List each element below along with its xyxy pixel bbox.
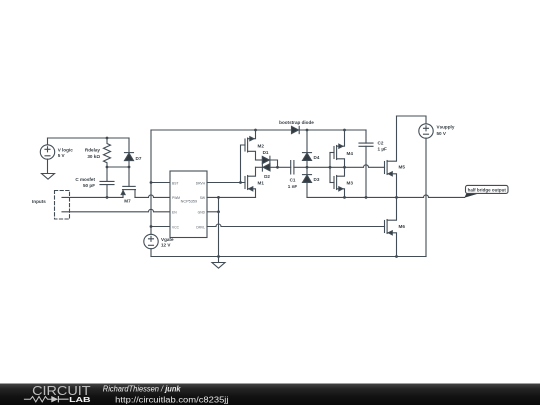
wire input 2 to EN pin (hop over vertical) [62, 209, 170, 212]
junction [276, 166, 279, 169]
transistor M3 [330, 167, 353, 197]
svg-text:1 nF: 1 nF [288, 184, 298, 189]
svg-text:D3: D3 [314, 177, 320, 182]
wire V logic top rail [48, 137, 130, 139]
svg-text:Inputs: Inputs [32, 199, 46, 204]
svg-text:50 V: 50 V [437, 131, 447, 136]
svg-text:D1: D1 [263, 150, 269, 155]
svg-text:V logic: V logic [58, 148, 74, 153]
svg-text:PWM: PWM [172, 196, 180, 200]
diode D4 [303, 130, 320, 167]
junction [150, 181, 153, 184]
wire M2 drain to D1 [256, 159, 263, 161]
svg-text:C2: C2 [378, 140, 384, 145]
voltage source V logic [40, 138, 73, 174]
wire ground rail [151, 256, 426, 258]
wire D1/D2 node to C1 [278, 166, 291, 168]
wire input 1 to M7 source [62, 196, 123, 198]
transistor M7 [121, 186, 135, 203]
junction [343, 166, 346, 169]
svg-text:M4: M4 [347, 151, 354, 156]
wire C1 to gate node line [294, 166, 330, 168]
svg-text:5 V: 5 V [58, 153, 66, 158]
svg-text:M3: M3 [347, 181, 354, 186]
wire M1 drain to D2 [256, 166, 263, 168]
svg-text:NCP5359: NCP5359 [181, 200, 197, 204]
junction [239, 181, 242, 184]
junction [254, 129, 257, 132]
wire GND pin to ground drop [207, 211, 219, 213]
junction [150, 225, 153, 228]
wire gate link M4-M3 [329, 153, 331, 183]
wire node down to C mosfet [106, 167, 108, 181]
svg-text:LAB: LAB [69, 395, 91, 404]
transistor M1 [245, 167, 264, 197]
transistor M5 [385, 116, 406, 197]
wire Rdelay bottom to D7 [107, 166, 129, 168]
voltage source Vsupply [419, 124, 455, 138]
svg-text:half bridge output: half bridge output [468, 187, 507, 192]
junction [329, 166, 332, 169]
transistor M6 [385, 197, 406, 256]
svg-text:EN: EN [172, 211, 177, 215]
svg-text:GND: GND [198, 211, 206, 215]
transistor M4 [330, 130, 353, 167]
svg-text:D2: D2 [264, 174, 270, 179]
capacitor C1 [288, 161, 298, 190]
junction [306, 166, 309, 169]
transistor M2 [245, 130, 264, 160]
wire SW rail [207, 196, 465, 198]
junction [343, 196, 346, 199]
svg-text:http://circuitlab.com/c8235jj: http://circuitlab.com/c8235jj [115, 395, 228, 405]
wire Vsupply top rail [397, 116, 427, 124]
junction [106, 137, 109, 140]
footer logo resistor squiggle [24, 397, 53, 402]
junction [217, 255, 220, 258]
junction [395, 255, 398, 258]
svg-text:30 kΩ: 30 kΩ [87, 154, 100, 159]
wire DRVL to M6 gate (hop) [207, 224, 385, 227]
svg-text:SW: SW [200, 196, 206, 200]
junction [128, 166, 131, 169]
junction [106, 196, 109, 199]
ground [42, 174, 55, 180]
svg-text:VCC: VCC [172, 225, 180, 229]
wire Vgate vertical riser [150, 130, 152, 234]
junction [395, 196, 398, 199]
wire node line to drains (hop over C2 wire) [330, 165, 385, 167]
svg-text:BST: BST [172, 181, 178, 185]
wire riser to BST pin [151, 182, 170, 184]
svg-text:DRVL: DRVL [196, 225, 205, 229]
diode D1 [262, 150, 277, 167]
wire bootstrap top rail [151, 129, 366, 131]
footer bar [0, 384, 540, 405]
voltage source Vgate [144, 234, 174, 248]
svg-text:Rdelay: Rdelay [85, 148, 101, 153]
capacitor C mosfet [75, 177, 114, 197]
diode bootstrap diode [279, 120, 314, 134]
svg-text:D4: D4 [314, 155, 320, 160]
wire Vsupply to ground rail [425, 138, 427, 256]
diode D7 [125, 138, 142, 167]
svg-text:DRVH: DRVH [196, 181, 206, 185]
junction [217, 210, 220, 213]
op-amp U1 NCP5359 gate driver IC [170, 171, 207, 238]
svg-text:M7: M7 [124, 198, 131, 203]
svg-text:M6: M6 [399, 224, 406, 229]
footer logo diode [51, 396, 58, 402]
junction [365, 196, 368, 199]
svg-text:RichardThiessen / junk: RichardThiessen / junk [103, 384, 181, 393]
wire ground drop vertical [218, 197, 220, 262]
capacitor C2 [359, 130, 387, 197]
node half bridge output flag [464, 185, 508, 197]
diode D2 [262, 164, 277, 179]
wire D7 anode to M7 gate [128, 167, 130, 186]
junction [306, 129, 309, 132]
svg-text:C1: C1 [290, 178, 296, 183]
wire riser to VCC pin [151, 226, 170, 228]
ground [212, 263, 225, 269]
svg-text:M2: M2 [258, 143, 265, 148]
wire SW hop over Vsupply wire [424, 195, 429, 198]
junction [343, 129, 346, 132]
input connector box Inputs [32, 191, 70, 220]
svg-text:Vsupply: Vsupply [437, 125, 455, 130]
wire M7 drain to PWM pin (hop over vertical) [135, 195, 170, 198]
svg-text:D7: D7 [136, 156, 142, 161]
svg-text:50 pF: 50 pF [83, 183, 95, 188]
svg-text:M1: M1 [258, 180, 265, 185]
svg-text:bootstrap diode: bootstrap diode [279, 120, 314, 125]
resistor Rdelay [85, 138, 111, 167]
junction [106, 166, 109, 169]
svg-text:M5: M5 [399, 165, 406, 170]
svg-text:C mosfet: C mosfet [75, 177, 95, 182]
diode D3 [303, 167, 320, 197]
wire Vgate to ground rail [150, 249, 152, 257]
wire DRVH to M1/M2 gates [207, 182, 245, 184]
svg-text:12 V: 12 V [161, 243, 171, 248]
svg-text:1 µF: 1 µF [378, 147, 387, 152]
junction [217, 196, 220, 199]
wire gate link M2-M1 [241, 145, 246, 183]
